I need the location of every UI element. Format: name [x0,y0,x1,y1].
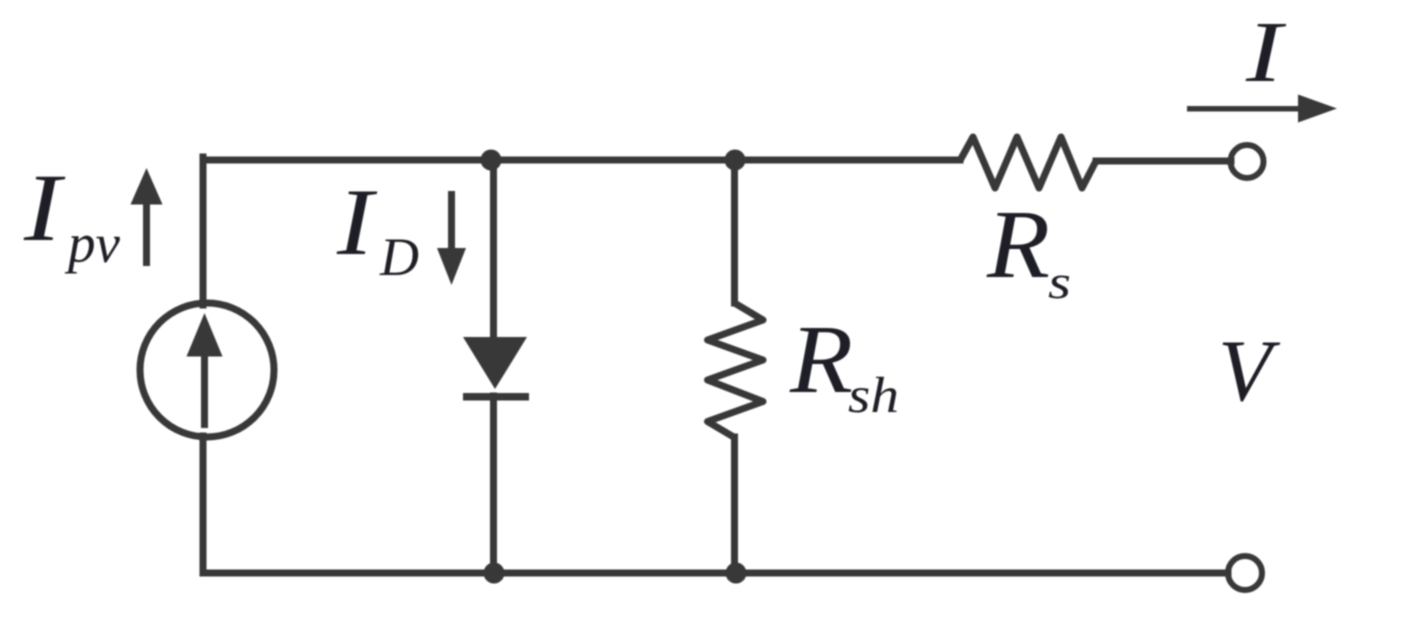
svg-text:R: R [986,191,1050,299]
diode D1 [463,337,529,401]
arrow I (output current, top right) [1187,95,1337,123]
wire left vertical lower [200,436,207,573]
terminal top-right (open circle) [1231,145,1264,178]
current source arrow (inside circle) [187,313,223,428]
wire top horizontal right segment (after Rs) [1096,158,1231,165]
terminal bottom-right (open circle) [1228,556,1262,590]
resistor Rs (series, zigzag) [960,137,1096,188]
wire left vertical upper [200,157,207,305]
wire Rsh branch lower [731,437,738,573]
wire diode branch upper [490,160,497,340]
arrow ID (down, beside diode) [437,191,466,285]
svg-text:sh: sh [848,368,899,424]
node D: junction dot bottom Rsh [726,563,747,584]
svg-text:I: I [23,154,66,261]
wire bottom horizontal [203,570,1228,577]
arrow Ipv (up, left of source) [131,168,163,266]
node A: junction dot top diode [481,150,502,171]
resistor Rsh (shunt, zigzag) [708,303,764,438]
svg-text:V: V [1218,323,1281,420]
svg-text:s: s [1048,256,1071,309]
wire top horizontal left segment [203,157,960,164]
wire diode branch lower [490,396,497,573]
node B: junction dot top Rsh [725,150,746,171]
node C: junction dot bottom diode [484,563,505,584]
svg-text:pv: pv [64,213,121,274]
svg-text:I: I [1245,3,1287,100]
svg-text:I: I [336,169,378,275]
wire Rsh branch upper [731,160,738,303]
current source U1 circle [140,303,274,437]
svg-text:R: R [789,306,853,414]
svg-text:D: D [379,227,419,287]
